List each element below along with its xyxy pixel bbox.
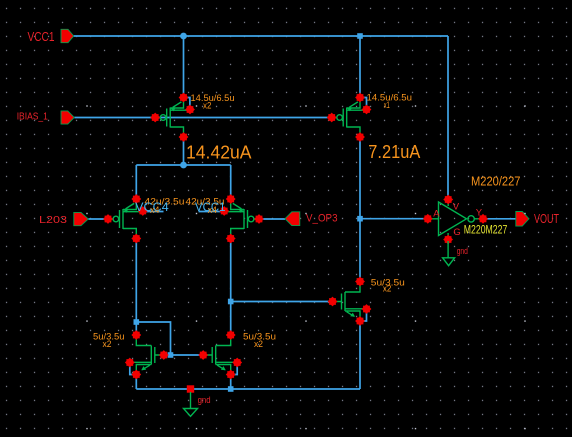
svg-text:x2: x2 (103, 339, 112, 349)
wire mirror-left source to ground rail (135, 375, 137, 390)
junction square VCC1 rail / M-bias-right (357, 33, 363, 39)
wire M-bias-right drain down to M-out drain (359, 137, 361, 281)
junction dot tail node (180, 162, 187, 169)
svg-text:gnd: gnd (457, 246, 468, 256)
svg-text:x2: x2 (383, 284, 392, 294)
wire diff-right drain down to mirror-right drain (230, 239, 232, 336)
wire IBIAS_1 to bias gates (74, 117, 331, 119)
pin IBIAS_1 (61, 111, 74, 124)
wire net VCC1 bulk stub (199, 211, 225, 213)
pmos M-bias-right x1 (327, 93, 372, 142)
wire tail to diff-right source (230, 165, 232, 199)
svg-text:x2: x2 (203, 100, 212, 110)
junction square mirror-left diode top (134, 319, 140, 325)
svg-text:Y: Y (476, 208, 483, 219)
ground symbol at output buffer (443, 241, 455, 266)
svg-text:x4: x4 (208, 205, 217, 215)
pmos M-bias-left x2 (150, 93, 195, 142)
wire top rail down to inverter V (447, 36, 449, 199)
pin V_OP3 (285, 212, 300, 226)
svg-text:VOUT: VOUT (534, 212, 559, 226)
wire mirror-right bulk tie (231, 363, 238, 375)
wire diff-left drain down to mirror-left drain (135, 239, 137, 336)
svg-text:V_OP3: V_OP3 (306, 213, 338, 225)
wire VCC1 to M-bias-right source (359, 36, 361, 98)
wire mirror-left diode connection (136, 322, 170, 355)
wire mirror gate to gate (164, 354, 203, 356)
svg-text:VCC1: VCC1 (28, 29, 55, 44)
svg-text:L203: L203 (39, 214, 67, 226)
nmos M-out 5u/3.5u x2 (328, 277, 372, 326)
wire M-bias-left drain to tail node (183, 137, 185, 165)
pin L203 (74, 212, 89, 225)
svg-text:M220/227: M220/227 (471, 175, 521, 189)
pmos diff-left 42u/3.5u (103, 194, 148, 243)
pmos diff-right 42u/3.5u (219, 194, 264, 243)
wire M-out source down to ground rail (359, 321, 361, 389)
svg-text:x1: x1 (384, 100, 390, 110)
wire diff-right gate to V_OP3 (259, 218, 285, 220)
svg-text:x2: x2 (254, 339, 263, 349)
wire VCC1 top rail (74, 35, 449, 37)
ground red square on ground rail (187, 385, 194, 392)
svg-text:V: V (453, 201, 460, 212)
svg-text:14.42uA: 14.42uA (186, 143, 252, 163)
wire node to inverter input A (360, 218, 428, 220)
svg-text:A: A (433, 208, 440, 219)
junction square M-out gate branch (228, 299, 234, 305)
pin VOUT (516, 212, 529, 227)
svg-text:M220M227: M220M227 (464, 223, 508, 237)
svg-text:IBIAS_1: IBIAS_1 (17, 112, 49, 123)
svg-text:G: G (453, 227, 460, 238)
wire inverter Y to VOUT (483, 218, 516, 220)
wire M-bias-left bulk tie (184, 98, 190, 110)
junction dot VCC1 rail / M-bias-left (180, 33, 187, 40)
svg-text:7.21uA: 7.21uA (368, 142, 420, 162)
wire mirror-right source to ground rail (230, 375, 232, 390)
nmos mirror-left 5u/3.5u x2 (125, 330, 169, 379)
junction square ground rail (228, 386, 234, 392)
wire net VCC4 bulk stub (143, 211, 164, 213)
svg-text:gnd: gnd (198, 395, 211, 405)
wire M-out bulk tie (360, 309, 367, 321)
wire tail to diff-left source (135, 165, 137, 199)
op-amp output buffer M220M227 (423, 195, 488, 245)
ground symbol bottom (184, 392, 198, 416)
svg-text:14.5u/6.5u: 14.5u/6.5u (191, 93, 235, 103)
junction square second stage node (357, 216, 363, 222)
wire L203 to diff-left gate (88, 218, 108, 220)
wire ground rail (136, 388, 360, 390)
junction square mirror gate wire (168, 352, 174, 358)
svg-text:x4: x4 (150, 205, 159, 215)
wire diff-right drain to M-out gate (231, 301, 333, 303)
bright grid dots (86, 105, 525, 429)
wire VCC1 to M-bias-left source (183, 36, 185, 98)
wire tail rail (136, 164, 230, 166)
wire M-bias-right bulk tie (360, 98, 367, 110)
wire mirror-left bulk tie (130, 363, 137, 375)
pin VCC1 (61, 29, 74, 42)
nmos mirror-right 5u/3.5u x2 (198, 330, 242, 379)
